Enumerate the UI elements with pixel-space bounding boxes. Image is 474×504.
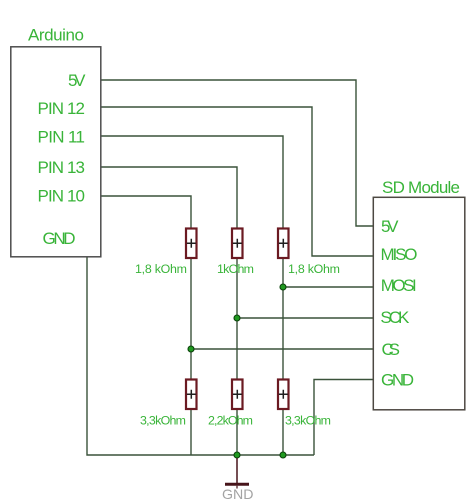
svg-text:5V: 5V xyxy=(381,217,399,236)
svg-text:GND: GND xyxy=(381,371,414,390)
svg-text:2,2kOhm: 2,2kOhm xyxy=(208,414,253,428)
svg-text:1,8 kOhm: 1,8 kOhm xyxy=(288,262,340,276)
svg-text:1kOhm: 1kOhm xyxy=(217,262,254,276)
svg-text:PIN 10: PIN 10 xyxy=(38,187,86,206)
svg-text:PIN 11: PIN 11 xyxy=(38,128,86,147)
svg-text:3,3kOhm: 3,3kOhm xyxy=(285,414,331,428)
svg-text:PIN 13: PIN 13 xyxy=(38,158,86,177)
svg-text:5V: 5V xyxy=(68,71,86,90)
svg-text:SCK: SCK xyxy=(380,308,410,327)
svg-text:Arduino: Arduino xyxy=(28,26,84,45)
svg-text:MOSI: MOSI xyxy=(381,276,417,295)
svg-text:GND: GND xyxy=(43,229,76,248)
svg-text:PIN 12: PIN 12 xyxy=(38,99,86,118)
svg-text:GND: GND xyxy=(222,486,254,502)
svg-text:MISO: MISO xyxy=(381,245,418,264)
svg-text:3,3kOhm: 3,3kOhm xyxy=(140,414,186,428)
svg-text:SD Module: SD Module xyxy=(382,178,460,197)
svg-text:CS: CS xyxy=(382,340,401,359)
svg-text:1,8 kOhm: 1,8 kOhm xyxy=(135,262,187,276)
